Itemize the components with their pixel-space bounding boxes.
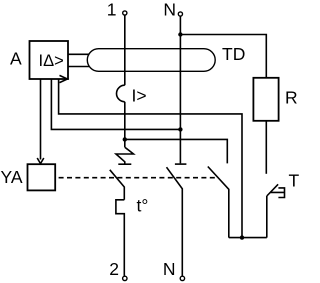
wire relay to TD upper [68, 53, 90, 55]
svg-text:TD: TD [222, 44, 245, 64]
terminal 2 (bottom) [123, 276, 127, 280]
differential relay box A [30, 41, 69, 79]
overcurrent release I> bump [117, 85, 125, 102]
svg-text:A: A [10, 49, 22, 69]
svg-text:1: 1 [107, 0, 117, 20]
wire line 1 upper [124, 15, 126, 85]
terminal 1 (top) [123, 11, 127, 15]
fixed contact bar pole 1 [118, 163, 131, 165]
contact arm pole 1 [110, 170, 125, 200]
wire relay output 3 (test loop) [59, 79, 242, 238]
resistor R [253, 78, 278, 121]
svg-text:N: N [163, 259, 176, 279]
node junction N middle [178, 127, 182, 131]
arrowhead into YA [37, 158, 44, 164]
test button T contact arm [267, 184, 278, 196]
wire line 1 middle [124, 102, 126, 140]
wire R to test button [265, 121, 267, 174]
svg-text:t°: t° [137, 196, 149, 216]
trip coil YA box [28, 164, 56, 190]
svg-text:R: R [285, 88, 298, 108]
fixed contact bar pole N [175, 163, 187, 165]
wire test button to bus [266, 196, 268, 238]
wire relay output 2 [51, 79, 180, 129]
wire line 1 to release [124, 139, 126, 147]
svg-text:T: T [289, 171, 300, 191]
wire contact 1 to test contact [125, 139, 228, 163]
svg-text:YA: YA [1, 167, 23, 187]
contact arm test pole [208, 167, 229, 238]
wire line N middle [179, 35, 181, 164]
terminal N (bottom) [180, 276, 184, 280]
node junction line1 [123, 137, 127, 141]
mechanical linkage dashed line [59, 177, 217, 179]
wire N to resistor R [180, 35, 266, 78]
thermal release t° [116, 200, 124, 276]
svg-text:I>: I> [132, 86, 147, 106]
svg-text:IΔ>: IΔ> [39, 52, 64, 70]
wire relay to TD lower [68, 66, 90, 68]
wire relay to trip coil YA with arrow [40, 79, 42, 160]
svg-text:N: N [163, 0, 176, 20]
contact arm pole N [167, 167, 183, 276]
test button actuator [270, 188, 284, 198]
bottom bus wire [229, 237, 267, 239]
node junction N top [178, 32, 182, 36]
wire line N upper [179, 16, 181, 34]
toroidal transformer TD [87, 49, 215, 72]
terminal N (top) [178, 12, 182, 16]
node junction bus [240, 235, 244, 239]
automatic release zigzag [116, 147, 134, 164]
relay output arrow on box bottom [60, 75, 68, 82]
svg-text:2: 2 [109, 259, 119, 279]
